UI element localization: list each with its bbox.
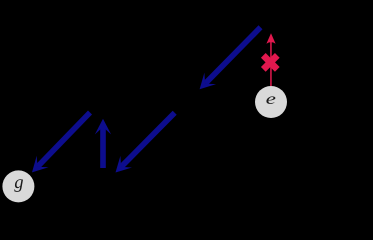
red X (forbidden)	[261, 53, 280, 72]
blue decay arrow 1 (e to intermediate level)	[200, 25, 263, 89]
blue decay arrow 2 (intermediate to lower level)	[116, 111, 177, 173]
node e (excited state circle)	[255, 86, 287, 118]
red forbidden transition arrow (e upward)	[266, 33, 275, 86]
blue pump arrow up	[95, 119, 111, 168]
blue decay arrow 3 (to ground g)	[32, 111, 92, 173]
node g (ground state circle)	[2, 170, 34, 202]
